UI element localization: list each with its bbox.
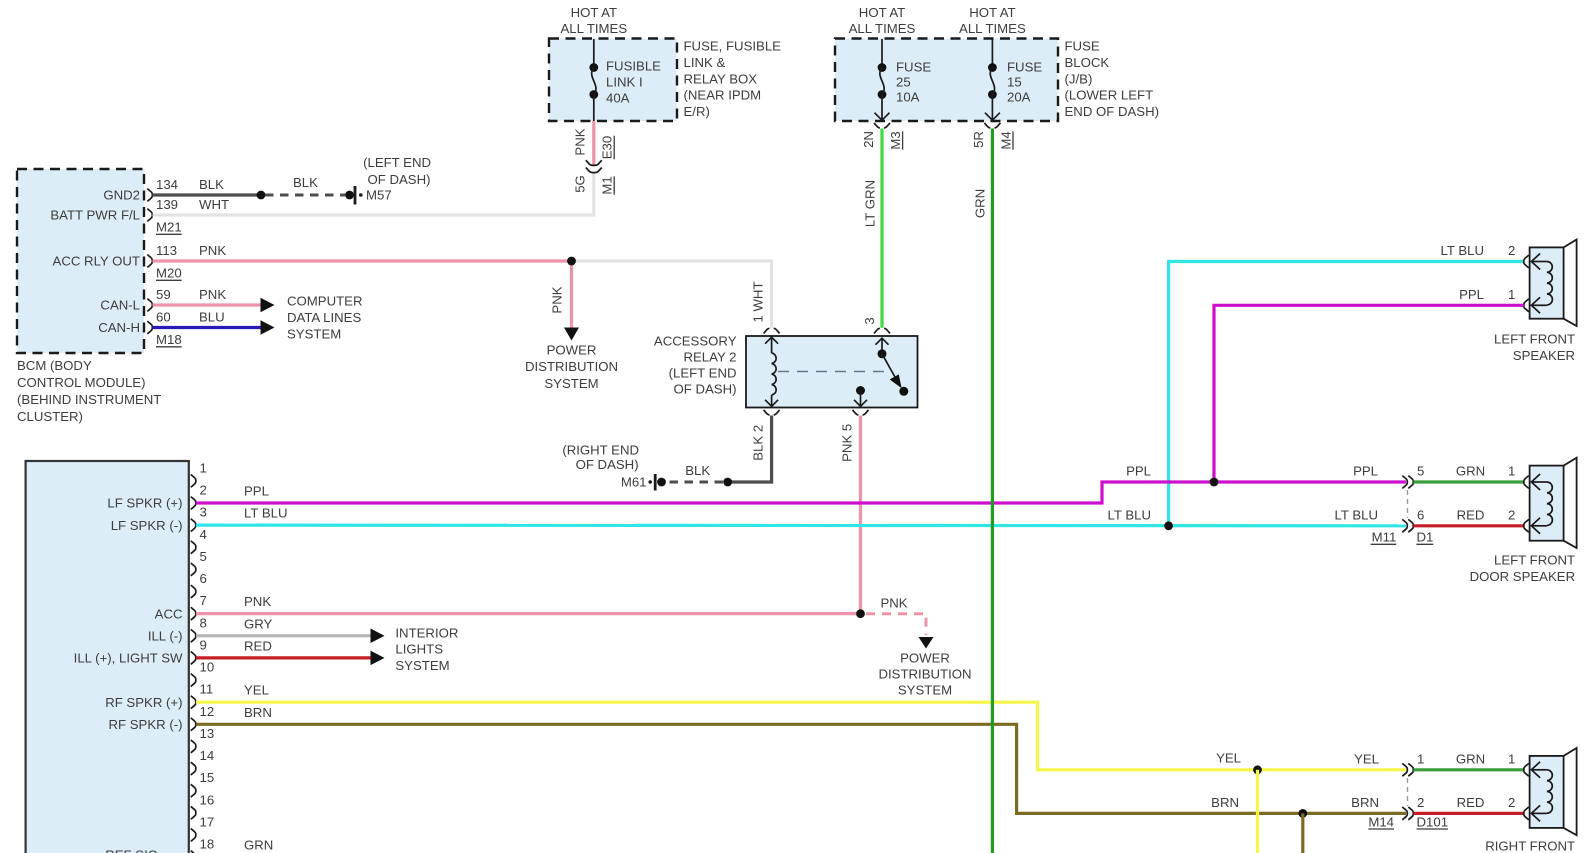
svg-text:2: 2 <box>200 483 207 498</box>
svg-text:17: 17 <box>200 814 215 829</box>
svg-text:6: 6 <box>1417 508 1424 523</box>
svg-text:LINK &: LINK & <box>684 55 726 70</box>
svg-text:1: 1 <box>1508 287 1515 302</box>
BCM pin 113 connector <box>147 255 152 268</box>
svg-text:(NEAR IPDM: (NEAR IPDM <box>684 88 762 103</box>
svg-text:10A: 10A <box>896 89 920 104</box>
svg-text:PNK: PNK <box>549 286 564 313</box>
svg-text:FUSE, FUSIBLE: FUSE, FUSIBLE <box>684 39 782 54</box>
junction ACC pink <box>856 609 865 618</box>
svg-text:M20: M20 <box>156 266 182 281</box>
inline connector E30/M1 <box>586 160 602 165</box>
junction PPL <box>1210 478 1219 487</box>
wire RED to right speaker <box>1414 812 1524 815</box>
svg-text:PPL: PPL <box>1459 287 1484 302</box>
ground splice M61 symbol <box>657 478 666 487</box>
wire BLU CAN-H <box>153 326 262 329</box>
svg-text:9: 9 <box>200 637 207 652</box>
svg-text:113: 113 <box>156 243 177 258</box>
relay pin 5 contact <box>856 386 865 395</box>
svg-text:(LOWER LEFT: (LOWER LEFT <box>1065 88 1154 103</box>
svg-text:RED: RED <box>1457 795 1485 810</box>
svg-text:5G: 5G <box>573 175 588 193</box>
wire GRY ILL- <box>196 634 371 637</box>
svg-text:BRN: BRN <box>1211 795 1239 810</box>
svg-text:ALL TIMES: ALL TIMES <box>849 21 916 36</box>
svg-text:YEL: YEL <box>1354 752 1379 767</box>
svg-text:DISTRIBUTION: DISTRIBUTION <box>878 667 971 682</box>
wire BLK GND2 <box>153 193 262 196</box>
BCM pin 60 connector <box>147 321 152 334</box>
BCM pin 59 connector <box>147 299 152 312</box>
svg-text:RELAY BOX: RELAY BOX <box>684 71 758 86</box>
junction BRN <box>1298 809 1307 818</box>
svg-text:GRN: GRN <box>973 189 988 218</box>
svg-text:PPL: PPL <box>1126 464 1151 479</box>
svg-text:BRN: BRN <box>1351 795 1379 810</box>
speaker coil and arrows <box>1547 262 1553 305</box>
svg-text:13: 13 <box>200 726 215 741</box>
svg-text:CAN-L: CAN-L <box>100 298 140 313</box>
svg-text:BLOCK: BLOCK <box>1065 55 1110 70</box>
svg-text:ALL TIMES: ALL TIMES <box>560 21 627 36</box>
inline connector M14/D101 <box>1402 763 1407 776</box>
wire YEL branch down <box>1256 770 1259 853</box>
svg-text:OF DASH): OF DASH) <box>673 382 736 397</box>
svg-text:M21: M21 <box>156 220 182 235</box>
speaker coil and arrows <box>1547 770 1553 813</box>
BCM pin 139 connector <box>147 209 152 222</box>
relay pin 5 connector <box>853 410 869 415</box>
svg-text:12: 12 <box>200 704 215 719</box>
relay coil <box>771 338 773 354</box>
svg-text:PNK: PNK <box>244 594 271 609</box>
svg-text:(LEFT END: (LEFT END <box>363 155 431 170</box>
svg-text:RF SPKR (+): RF SPKR (+) <box>105 695 182 710</box>
fuse fusible link relay box <box>549 39 677 122</box>
svg-text:GRN: GRN <box>244 838 273 853</box>
wire GRN to right speaker <box>1414 768 1524 771</box>
wire YEL RF SPKR+ <box>196 702 1406 770</box>
svg-text:5: 5 <box>1417 464 1424 479</box>
svg-text:RIGHT FRONT: RIGHT FRONT <box>1485 839 1575 853</box>
svg-text:RF SPKR (-): RF SPKR (-) <box>109 717 183 732</box>
fusible link I 40A element <box>593 39 595 68</box>
svg-text:LF SPKR (-): LF SPKR (-) <box>111 518 183 533</box>
svg-text:LT GRN: LT GRN <box>862 180 877 227</box>
svg-text:2N: 2N <box>861 131 876 148</box>
dashed PNK to power distribution <box>866 614 926 635</box>
svg-text:LT BLU: LT BLU <box>244 506 288 521</box>
svg-text:CLUSTER): CLUSTER) <box>17 409 83 424</box>
svg-text:PNK 5: PNK 5 <box>840 424 855 462</box>
svg-text:E/R): E/R) <box>684 104 710 119</box>
wire PNK ACC <box>196 612 857 615</box>
relay internal dashed link <box>778 371 888 373</box>
fuse 25 10A element <box>881 39 883 68</box>
svg-text:REF SIG: REF SIG <box>105 848 158 853</box>
svg-text:ILL (+), LIGHT SW: ILL (+), LIGHT SW <box>74 651 183 666</box>
relay pin 2 connector <box>764 410 780 415</box>
svg-text:GRN: GRN <box>1456 464 1485 479</box>
svg-text:7: 7 <box>200 593 207 608</box>
svg-text:PNK: PNK <box>573 128 588 155</box>
svg-text:M61: M61 <box>621 475 647 490</box>
svg-text:OF DASH): OF DASH) <box>367 172 430 187</box>
svg-text:HOT AT: HOT AT <box>859 5 905 20</box>
svg-text:15: 15 <box>200 770 215 785</box>
svg-text:59: 59 <box>156 287 171 302</box>
svg-text:2: 2 <box>1417 795 1424 810</box>
svg-text:ACCESSORY: ACCESSORY <box>654 334 737 349</box>
wire PPL LF SPKR+ <box>196 482 1406 503</box>
svg-text:LEFT FRONT: LEFT FRONT <box>1494 332 1575 347</box>
wire GRN from fuse 15 down <box>991 129 994 853</box>
svg-text:BLK 2: BLK 2 <box>751 425 766 461</box>
svg-text:YEL: YEL <box>244 683 269 698</box>
svg-text:GND2: GND2 <box>103 188 140 203</box>
svg-text:INTERIOR: INTERIOR <box>395 625 458 640</box>
svg-text:LINK I: LINK I <box>606 75 643 90</box>
wire LT BLU to left front speaker <box>1169 262 1524 525</box>
BCM pin 134 connector <box>147 189 152 202</box>
svg-text:M3: M3 <box>888 131 903 149</box>
wire BLK relay pin2 to M61 <box>728 416 772 483</box>
svg-text:2: 2 <box>1508 508 1515 523</box>
svg-text:POWER: POWER <box>900 651 950 666</box>
svg-text:LT BLU: LT BLU <box>1108 508 1152 523</box>
svg-text:SPEAKER: SPEAKER <box>1513 348 1575 363</box>
junction on BLK wire <box>257 191 266 200</box>
PNK arrow to power distribution system <box>570 261 573 328</box>
arrow CAN-L to computer data lines <box>261 298 275 313</box>
svg-text:3: 3 <box>200 505 207 520</box>
svg-text:PNK: PNK <box>199 243 226 258</box>
svg-text:1: 1 <box>1508 752 1515 767</box>
svg-text:BCM (BODY: BCM (BODY <box>17 358 92 373</box>
svg-text:CAN-H: CAN-H <box>98 320 140 335</box>
wire GRN to door speaker <box>1414 480 1524 483</box>
lower connector pin arcs <box>191 474 196 487</box>
svg-text:BLU: BLU <box>199 309 225 324</box>
svg-text:COMPUTER: COMPUTER <box>287 294 362 309</box>
wire PNK CAN-L <box>153 303 262 306</box>
svg-text:10: 10 <box>200 660 215 675</box>
svg-text:BLK: BLK <box>199 177 224 192</box>
svg-text:5: 5 <box>200 549 207 564</box>
wire RED to door speaker <box>1414 524 1524 527</box>
svg-text:OF DASH): OF DASH) <box>576 457 639 472</box>
svg-text:WHT: WHT <box>199 197 229 212</box>
svg-text:M57: M57 <box>366 188 392 203</box>
wire RED ILL+ <box>196 656 371 659</box>
svg-text:E30: E30 <box>600 136 615 159</box>
svg-text:18: 18 <box>200 837 215 852</box>
svg-text:HOT AT: HOT AT <box>969 5 1015 20</box>
svg-text:M18: M18 <box>156 332 182 347</box>
svg-text:PPL: PPL <box>1353 464 1378 479</box>
speaker body <box>1564 458 1577 548</box>
svg-text:POWER: POWER <box>547 343 597 358</box>
svg-text:LT BLU: LT BLU <box>1441 243 1485 258</box>
svg-text:HOT AT: HOT AT <box>571 5 617 20</box>
wire PNK relay pin5 down <box>859 416 862 614</box>
svg-text:PPL: PPL <box>244 484 269 499</box>
svg-text:M4: M4 <box>998 131 1013 149</box>
speaker body <box>1564 240 1577 327</box>
svg-text:139: 139 <box>156 197 178 212</box>
relay switch contact <box>881 339 883 354</box>
svg-text:CONTROL MODULE): CONTROL MODULE) <box>17 375 145 390</box>
svg-text:BLK: BLK <box>293 175 318 190</box>
svg-text:FUSE: FUSE <box>1007 60 1042 75</box>
svg-text:11: 11 <box>200 682 214 697</box>
svg-text:BATT PWR F/L: BATT PWR F/L <box>50 208 140 223</box>
svg-text:6: 6 <box>200 571 207 586</box>
svg-text:8: 8 <box>200 615 207 630</box>
svg-text:ILL (-): ILL (-) <box>148 628 183 643</box>
accessory relay 2 box <box>746 336 918 408</box>
ground splice M57 symbol <box>345 191 354 200</box>
svg-text:M1: M1 <box>600 176 615 194</box>
svg-text:LT BLU: LT BLU <box>1335 508 1379 523</box>
wire BRN branch down <box>1301 813 1304 853</box>
svg-text:1: 1 <box>200 460 207 475</box>
dashed BLK wire to M57 <box>265 194 345 197</box>
svg-text:ACC: ACC <box>155 606 183 621</box>
svg-text:RELAY 2: RELAY 2 <box>683 350 736 365</box>
wire BRN RF SPKR- <box>196 724 1406 813</box>
svg-text:DOOR SPEAKER: DOOR SPEAKER <box>1470 569 1576 584</box>
svg-text:FUSE: FUSE <box>896 60 931 75</box>
svg-text:PNK: PNK <box>199 287 226 302</box>
svg-text:15: 15 <box>1007 75 1022 90</box>
svg-text:(J/B): (J/B) <box>1065 71 1093 86</box>
svg-text:20A: 20A <box>1007 89 1031 104</box>
svg-text:YEL: YEL <box>1216 751 1241 766</box>
svg-text:LF SPKR (+): LF SPKR (+) <box>107 496 182 511</box>
speaker entry connectors <box>1524 476 1529 489</box>
svg-text:16: 16 <box>200 792 215 807</box>
svg-text:PNK: PNK <box>880 595 907 610</box>
fuse block J/B box <box>835 39 1058 122</box>
svg-text:M11: M11 <box>1372 530 1397 545</box>
svg-text:FUSE: FUSE <box>1065 39 1100 54</box>
BCM lower connector box <box>26 461 189 853</box>
svg-text:BLK: BLK <box>685 463 710 478</box>
wire PNK below fusible link <box>592 121 595 165</box>
svg-text:RED: RED <box>244 638 272 653</box>
svg-text:END OF DASH): END OF DASH) <box>1065 104 1160 119</box>
junction LT BLU <box>1164 521 1173 530</box>
svg-text:ALL TIMES: ALL TIMES <box>959 21 1026 36</box>
svg-text:1 WHT: 1 WHT <box>750 281 765 322</box>
svg-text:40A: 40A <box>606 90 630 105</box>
wire WHT BATT PWR F/L <box>153 173 594 216</box>
speaker coil and arrows <box>1547 482 1553 525</box>
speaker entry connectors <box>1524 255 1529 268</box>
svg-text:2: 2 <box>1508 243 1515 258</box>
svg-text:25: 25 <box>896 75 911 90</box>
svg-text:ACC RLY OUT: ACC RLY OUT <box>53 254 140 269</box>
junction YEL <box>1253 765 1262 774</box>
speaker body <box>1564 748 1577 835</box>
svg-text:5R: 5R <box>971 131 986 148</box>
speaker entry connectors <box>1524 763 1529 776</box>
wire PPL to left front speaker <box>1214 305 1524 480</box>
junction ACC RLY OUT <box>567 257 576 266</box>
relay pin 1 connector <box>764 328 780 333</box>
svg-text:SYSTEM: SYSTEM <box>395 658 449 673</box>
svg-text:60: 60 <box>156 309 171 324</box>
svg-text:GRY: GRY <box>244 616 273 631</box>
svg-text:134: 134 <box>156 177 178 192</box>
arrow CAN-H to computer data lines <box>261 320 275 335</box>
svg-text:(BEHIND INSTRUMENT: (BEHIND INSTRUMENT <box>17 392 161 407</box>
svg-text:D101: D101 <box>1417 814 1449 829</box>
svg-text:D1: D1 <box>1417 530 1434 545</box>
svg-text:RED: RED <box>1457 508 1485 523</box>
svg-text:(LEFT END: (LEFT END <box>669 366 737 381</box>
wire LT BLU LF SPKR- <box>196 524 1406 528</box>
svg-text:DISTRIBUTION: DISTRIBUTION <box>525 359 618 374</box>
BCM (Body Control Module) box <box>17 169 144 353</box>
svg-text:SYSTEM: SYSTEM <box>544 376 598 391</box>
svg-text:SYSTEM: SYSTEM <box>898 683 952 698</box>
svg-text:FUSIBLE: FUSIBLE <box>606 58 661 73</box>
svg-text:1: 1 <box>1508 464 1515 479</box>
svg-text:SYSTEM: SYSTEM <box>287 326 341 341</box>
dashed BLK wire <box>666 481 723 484</box>
inline connector M11/D1 <box>1402 476 1407 489</box>
svg-text:M14: M14 <box>1368 814 1394 829</box>
connector M3 below fuse 25 <box>874 123 890 128</box>
svg-text:(RIGHT END: (RIGHT END <box>562 442 639 457</box>
fuse 15 20A element <box>991 39 993 68</box>
svg-text:4: 4 <box>200 527 207 542</box>
wire WHT to relay pin 1 <box>572 261 772 328</box>
svg-text:GRN: GRN <box>1456 752 1485 767</box>
svg-text:2: 2 <box>1508 795 1515 810</box>
svg-text:DATA LINES: DATA LINES <box>287 310 361 325</box>
svg-text:BRN: BRN <box>244 705 272 720</box>
svg-text:14: 14 <box>200 748 215 763</box>
junction on BLK M61 wire <box>723 478 732 487</box>
relay pin 3 connector <box>874 328 890 333</box>
svg-text:LIGHTS: LIGHTS <box>395 642 443 657</box>
svg-text:3: 3 <box>862 317 877 324</box>
connector M4 below fuse 15 <box>984 123 1000 128</box>
wire PNK ACC RLY OUT <box>153 259 572 262</box>
svg-text:1: 1 <box>1417 752 1424 767</box>
svg-text:LEFT FRONT: LEFT FRONT <box>1494 553 1575 568</box>
wire LT GRN fuse 25 to relay pin 3 <box>880 129 883 328</box>
